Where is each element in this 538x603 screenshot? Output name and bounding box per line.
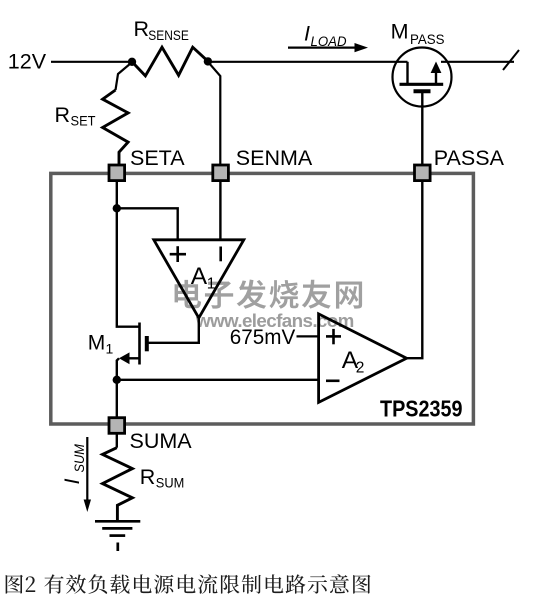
resistor R_SET bbox=[55, 62, 132, 165]
svg-text:TPS2359: TPS2359 bbox=[380, 395, 463, 421]
svg-text:R: R bbox=[140, 465, 156, 489]
wire 12V rail left bbox=[51, 61, 132, 63]
svg-text:PASS: PASS bbox=[410, 31, 445, 47]
pad SUMA bbox=[109, 418, 192, 453]
junction SETA branch bbox=[113, 204, 121, 212]
svg-text:SUM: SUM bbox=[156, 475, 185, 491]
svg-text:R: R bbox=[134, 17, 150, 41]
svg-text:675mV: 675mV bbox=[230, 326, 295, 349]
ground bbox=[95, 521, 140, 551]
pad SETA bbox=[109, 146, 185, 181]
watermark 电子发烧友网 bbox=[175, 280, 363, 309]
svg-text:PASSA: PASSA bbox=[434, 146, 505, 170]
svg-text:M: M bbox=[391, 19, 409, 43]
wire branch to A1 + input bbox=[117, 208, 178, 240]
wire SETA down to M1 drain bbox=[117, 180, 140, 327]
svg-text:12V: 12V bbox=[8, 49, 47, 73]
load break slash bbox=[503, 50, 519, 70]
resistor R_SUM bbox=[103, 433, 185, 521]
svg-text:I: I bbox=[304, 22, 310, 46]
pad SENMA bbox=[213, 146, 313, 181]
label I_LOAD bbox=[288, 22, 368, 53]
wire A2 output to PASSA bbox=[407, 180, 423, 358]
junction right of R_SENSE bbox=[204, 57, 212, 65]
svg-text:1: 1 bbox=[106, 340, 114, 356]
svg-text:SETA: SETA bbox=[130, 146, 185, 170]
junction left of R_SENSE bbox=[128, 58, 136, 66]
wire node down to SUMA bbox=[116, 380, 118, 418]
transistor M1 bbox=[88, 323, 147, 381]
wire M_PASS gate to PASSA bbox=[421, 93, 423, 165]
wire 675mV to A2 + input bbox=[297, 335, 319, 337]
wire M_PASS drain to load bbox=[441, 61, 514, 63]
svg-text:LOAD: LOAD bbox=[311, 33, 347, 49]
caption 图2 有效负载电源电流限制电路示意图 bbox=[6, 574, 371, 594]
wire SENMA lead from junction bbox=[208, 62, 220, 165]
pad PASSA bbox=[415, 146, 505, 181]
wire M1 source to A2 - input bbox=[117, 379, 319, 381]
svg-text:A: A bbox=[191, 263, 208, 290]
svg-text:SENSE: SENSE bbox=[148, 27, 189, 43]
chip box TPS2359 bbox=[51, 173, 474, 424]
op-amp A1 bbox=[154, 240, 244, 318]
wire SENMA to A1 - input bbox=[219, 180, 221, 240]
svg-text:1: 1 bbox=[207, 275, 216, 292]
svg-text:2: 2 bbox=[356, 359, 365, 376]
wire A1 output to M1 gate bbox=[149, 318, 199, 343]
svg-text:SUM: SUM bbox=[71, 444, 87, 473]
svg-text:M: M bbox=[88, 332, 106, 355]
svg-text:SUMA: SUMA bbox=[130, 429, 193, 453]
svg-text:SET: SET bbox=[71, 113, 96, 129]
svg-text:SENMA: SENMA bbox=[236, 146, 313, 170]
label I_SUM with arrow bbox=[60, 437, 91, 512]
wire 12V rail to M_PASS bbox=[208, 61, 408, 63]
op-amp A2 bbox=[319, 314, 407, 403]
svg-text:I: I bbox=[60, 479, 84, 485]
resistor R_SENSE bbox=[132, 17, 208, 76]
svg-text:R: R bbox=[55, 103, 71, 127]
transistor M_PASS bbox=[391, 19, 452, 106]
junction M1 source node bbox=[113, 376, 121, 384]
